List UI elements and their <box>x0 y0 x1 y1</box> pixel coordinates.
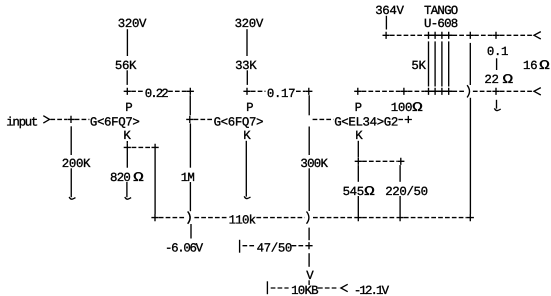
wire 364V down to primary line <box>385 16 387 30</box>
node C3 top junction <box>397 158 404 165</box>
wire C3 to bus <box>399 196 401 214</box>
wire bus right segment <box>404 217 467 219</box>
svg-text:16: 16 <box>523 59 537 73</box>
svg-text:0.22: 0.22 <box>145 87 169 101</box>
node 320V supply (second stage) <box>235 17 264 31</box>
svg-text:200K: 200K <box>62 157 91 171</box>
resistor R10 22 ohm (zobel) <box>484 72 513 87</box>
wire plate EL34 to screen node <box>362 90 401 92</box>
svg-text:100: 100 <box>391 101 412 115</box>
pin P label (EL34 plate) <box>355 101 362 115</box>
node bus C3 junction <box>397 214 404 221</box>
wire pot left lead <box>271 287 289 289</box>
wire crossover hop (EL34 bias line over bus) <box>307 212 309 224</box>
node G2 junction <box>405 116 412 123</box>
wire bias junction down <box>308 253 310 267</box>
triode U1b 6FQ7 (second half) <box>214 115 264 129</box>
svg-text:220/50: 220/50 <box>385 185 428 199</box>
svg-text:G<6FQ7>: G<6FQ7> <box>214 115 264 129</box>
svg-text:-6.06V: -6.06V <box>165 242 204 256</box>
node -6.06V bias voltage <box>165 242 204 256</box>
svg-text:Ω: Ω <box>133 170 144 185</box>
resistor R3 820 ohm (cathode bias) <box>110 170 144 185</box>
potentiometer R11 10KB (bias adjust) <box>291 284 318 296</box>
wire crossover hop at NFB bus (bias line) <box>188 212 190 224</box>
resistor R4 33K (6FQ7-2 plate load) <box>235 59 257 73</box>
svg-text:22: 22 <box>484 73 498 87</box>
resistor R1 56K (6FQ7-1 plate load) <box>115 59 137 73</box>
wire cathode node down to R8 <box>357 165 359 182</box>
pin K label (EL34 cathode) <box>355 129 363 143</box>
wire R1 to plate node <box>126 70 128 85</box>
ground (below R3) <box>125 182 131 199</box>
svg-text:input: input <box>6 115 38 129</box>
wire bus left segment <box>159 217 186 219</box>
pin K label (6FQ7-1 cathode) <box>123 129 131 143</box>
node EL34 cathode junction <box>355 158 362 165</box>
resistor R2 200K (grid leak) <box>62 157 91 171</box>
capacitor C3 220/50 (cathode bypass) <box>385 185 428 199</box>
svg-text:1M: 1M <box>181 171 195 185</box>
wire pot right lead <box>318 287 339 289</box>
wire wiper tick <box>308 280 310 285</box>
node -12.1V supply arrow <box>341 284 348 291</box>
node zobel top junction <box>492 32 499 39</box>
capacitor C4 47/50 terminal bar <box>239 240 241 253</box>
svg-text:5K: 5K <box>411 59 426 73</box>
transformer T1 primary label 5K <box>411 59 426 73</box>
svg-text:320V: 320V <box>235 17 264 31</box>
wire R6 down to bias crossover <box>308 168 310 211</box>
wire secondary bottom line <box>452 90 465 92</box>
svg-text:364V: 364V <box>375 4 404 18</box>
wire cathode1 horizontal <box>132 146 152 148</box>
wire C1 to 6FQ7-2 grid <box>189 95 191 115</box>
svg-text:110k: 110k <box>229 214 256 228</box>
wire C2 to EL34 grid <box>308 95 310 115</box>
node bus R8 junction <box>355 214 362 221</box>
wire NFB node to zobel node <box>474 34 492 36</box>
node B+ junction <box>383 32 390 39</box>
wire bus to cathode leg <box>313 217 355 219</box>
svg-text:Ω: Ω <box>412 100 423 115</box>
node NFB takeoff junction <box>467 32 474 39</box>
pin V label (pot wiper) <box>306 269 314 283</box>
node bus NFB junction <box>467 214 474 221</box>
node speaker terminal (common) <box>534 88 541 95</box>
wire 320V down to R1 <box>126 29 128 56</box>
svg-text:-12.1V: -12.1V <box>354 284 390 296</box>
svg-text:33K: 33K <box>235 59 257 73</box>
resistor R5 1M (grid leak to bias) <box>181 171 195 185</box>
svg-text:10KB: 10KB <box>291 284 318 296</box>
ground (below R2) <box>69 182 75 199</box>
svg-text:Ω: Ω <box>539 58 550 73</box>
pin K label (6FQ7-2 cathode) <box>243 129 251 143</box>
capacitor C1 0.22 (coupling) <box>131 87 186 101</box>
transformer T1 label U-608 <box>424 17 458 31</box>
svg-text:545: 545 <box>343 185 364 199</box>
node screen feed junction <box>400 88 407 95</box>
wire C3 top down <box>399 165 401 182</box>
resistor R6 300K (EL34 grid leak) <box>300 157 328 171</box>
svg-text:G<EL34>G2: G<EL34>G2 <box>334 115 398 129</box>
node C1 right junction <box>187 88 194 95</box>
wire cathode network horizontal <box>362 160 397 162</box>
svg-text:0.1: 0.1 <box>487 45 508 59</box>
wire zobel bottom to speaker terminal <box>500 90 533 92</box>
node bias pot terminal bar <box>266 281 268 294</box>
wire crossover hop (bias line over bus) <box>188 212 190 224</box>
wire R9 to EL34 crossover <box>256 217 304 219</box>
wire crossover hop at secondary bottom <box>467 85 469 97</box>
wire input to grid junction <box>50 118 67 120</box>
wire NFB vertical to bus <box>469 98 471 214</box>
transformer T1 winding lines <box>429 41 449 86</box>
svg-text:P: P <box>125 101 132 115</box>
wire bus to R9 <box>194 217 227 219</box>
resistor R9 110k (feedback) <box>229 214 256 228</box>
svg-text:P: P <box>246 101 253 115</box>
ground (zobel) <box>494 100 500 111</box>
capacitor C5 0.1 (zobel) <box>487 45 508 59</box>
wire B+ to transformer top <box>390 34 425 36</box>
wire 320V down to R4 <box>246 29 248 56</box>
wire grid2 junction to tube U1b <box>194 118 213 120</box>
wire cathode1 down to R3 <box>126 151 128 168</box>
node plate EL34 junction <box>354 88 361 95</box>
node 320V supply (first stage) <box>118 17 147 31</box>
node cathode1 junction <box>124 144 131 151</box>
wire EL34 bias line below bus <box>308 228 310 241</box>
svg-text:56K: 56K <box>115 59 137 73</box>
transformer T1 winding bottom connections <box>425 88 453 95</box>
wire screen node to transformer <box>408 90 425 92</box>
node bus left junction <box>151 214 158 221</box>
wire R5 down to bias crossover <box>189 182 191 211</box>
wire grid junction to tube U1a <box>75 118 90 120</box>
wire G2 to screen resistor <box>398 119 403 121</box>
node -12.1V supply label <box>354 284 390 296</box>
transformer T1 winding top connections <box>425 32 453 39</box>
svg-text:P: P <box>355 101 362 115</box>
wire EL34 grid down to R6 <box>308 127 310 156</box>
capacitor C2 0.17 (coupling) <box>251 87 305 101</box>
resistor R7 100 ohm (screen grid) <box>391 100 423 115</box>
svg-text:47/50: 47/50 <box>257 242 292 256</box>
node speaker terminal 16 ohm (hot) <box>534 32 541 39</box>
node input jack <box>6 115 49 129</box>
wire cathode2 down to ground <box>245 141 247 197</box>
svg-text:Ω: Ω <box>364 184 375 199</box>
wire after hop to zobel bottom <box>473 90 492 92</box>
ground (6FQ7-2 cathode) <box>244 196 250 198</box>
wire bias line below bus <box>190 224 192 239</box>
wire NFB down from takeoff <box>469 43 471 85</box>
svg-text:Ω: Ω <box>503 72 514 87</box>
load label 16 ohm <box>523 58 550 73</box>
svg-text:TANGO: TANGO <box>424 4 458 18</box>
node C2 right junction <box>305 88 312 95</box>
wire bus middle segment <box>362 217 396 219</box>
node plate2 junction <box>243 88 250 95</box>
capacitor C4 47/50 (bias filter) <box>243 242 305 256</box>
wire R8 to bus <box>357 196 359 214</box>
node grid1 junction <box>67 116 74 123</box>
wire EL34 K down to cathode node <box>357 141 359 158</box>
transformer T1 label TANGO <box>424 4 458 18</box>
wire grid1 down to R2 <box>70 126 72 155</box>
wire C5 to R10 <box>496 58 498 70</box>
triode U2 EL34 output tube <box>334 115 398 129</box>
svg-text:320V: 320V <box>118 17 147 31</box>
svg-text:G<6FQ7>: G<6FQ7> <box>90 115 140 129</box>
svg-text:0.17: 0.17 <box>267 87 295 101</box>
wire secondary top to output <box>452 34 466 36</box>
pin P label (6FQ7-1 plate) <box>125 101 132 115</box>
svg-text:U-608: U-608 <box>424 17 458 31</box>
node 364V supply (B+) <box>375 4 404 18</box>
wire grid2 down to R5 <box>189 123 191 167</box>
resistor R8 545 ohm (EL34 cathode) <box>343 184 375 199</box>
node cathode1 right junction <box>152 144 159 151</box>
wire cathode1 down to NFB bus <box>154 151 156 214</box>
pin P label (6FQ7-2 plate) <box>246 101 253 115</box>
wire EL34 grid line <box>313 118 334 120</box>
wire tube1 K down to cathode node <box>126 141 128 144</box>
node plate1 junction <box>124 88 131 95</box>
wire R4 to plate node <box>246 70 248 85</box>
wire zobel node to speaker terminal <box>500 34 533 36</box>
triode U1a 6FQ7 (first half) <box>90 115 140 129</box>
node zobel bottom junction <box>492 88 499 95</box>
wire R2 to ground <box>70 168 72 182</box>
svg-text:300K: 300K <box>300 157 328 171</box>
node grid2 junction <box>186 116 193 123</box>
node bias filter junction <box>305 242 312 249</box>
